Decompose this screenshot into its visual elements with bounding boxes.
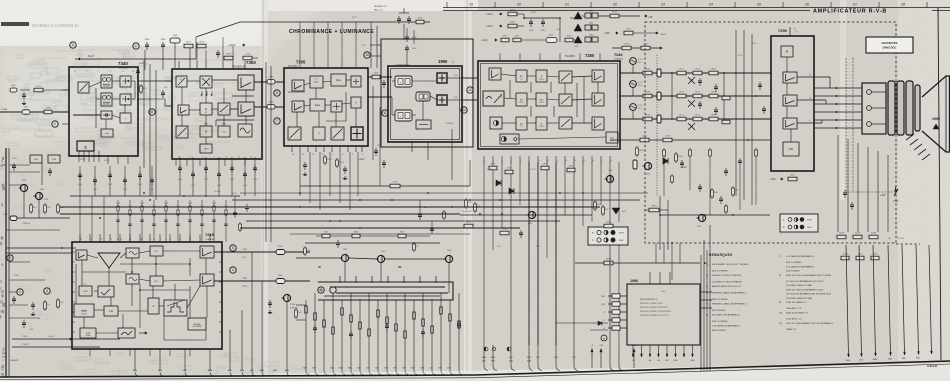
svg-text:1207: 1207 (491, 164, 497, 166)
module 1996 right pins (700, 291, 712, 293)
svg-text:B5B: B5B (339, 368, 343, 370)
dashed RVB amplifier boundary (645, 22, 896, 243)
svg-text:2207: 2207 (543, 164, 549, 166)
legend connector box b (right) (780, 214, 818, 232)
svg-text:3171: 3171 (679, 69, 685, 71)
capacitor 1203 (217, 50, 219, 53)
svg-text:Y: Y (318, 132, 320, 136)
IC 7250 matrix M 2 (536, 93, 547, 106)
vertical wires left of CTI (372, 86, 374, 160)
connector 1109 (170, 38, 180, 43)
svg-text:22k: 22k (30, 329, 33, 331)
chassis symbol 2789 (894, 186, 898, 196)
IC 7290 pin stubs right (797, 76, 814, 78)
svg-text:3171: 3171 (679, 92, 685, 94)
svg-text:820R 2k2 SUR LES APPAREILS AV: 820R 2k2 SUR LES APPAREILS AV POUDRE (786, 274, 832, 277)
svg-text:3607: 3607 (324, 232, 330, 234)
resistor 3053 (44, 203, 46, 214)
label +18 arrow (645, 15, 647, 17)
resistor 3104 (324, 155, 326, 165)
diode 6201b on row (598, 321, 602, 326)
IC 7250 input amp (489, 68, 501, 80)
svg-text:4277: 4277 (503, 36, 509, 38)
IC 7305 diag b (331, 127, 344, 140)
svg-text:7290: 7290 (778, 28, 788, 33)
svg-text:4): 4) (706, 293, 708, 295)
svg-text:1108: 1108 (269, 77, 274, 79)
resistor 3121 ladder (594, 200, 596, 211)
svg-text:1019: 1019 (843, 254, 849, 256)
IC 7215 output amp 2 (200, 274, 214, 286)
wire C490 bus (17, 217, 70, 219)
svg-text:4B33: 4B33 (651, 206, 657, 208)
ladder small caps (314, 325, 316, 328)
svg-text:1209: 1209 (507, 168, 513, 170)
svg-text:TDA4565-30: TDA4565-30 (232, 66, 246, 69)
IC 7290 FB1 box (783, 142, 799, 156)
svg-text:27: 27 (853, 3, 857, 7)
svg-text:3172: 3172 (695, 92, 701, 94)
IC 7215 big nabla (98, 253, 120, 268)
IC 7340 470n box (101, 129, 113, 137)
resistor row 1019 (841, 256, 849, 260)
svg-text:C5B B7D: C5B B7D (10, 360, 19, 362)
IC 7250 output amp G (592, 93, 604, 106)
resistor 3051 (30, 203, 32, 214)
IC 7290 internal wires (786, 57, 788, 72)
IC 7215 outputs right (214, 251, 310, 253)
svg-text:STA70B: STA70B (290, 307, 298, 310)
wire diode bus (570, 17, 574, 19)
ladder top transistor Q7602 (377, 255, 384, 262)
svg-text:TDA3565: TDA3565 (565, 55, 575, 58)
resistor 1208 on CVBB (44, 110, 52, 114)
svg-text:4.7k DANS LES APPAREILS: 4.7k DANS LES APPAREILS (786, 265, 815, 268)
cross link verticals on bus (671, 72, 673, 118)
svg-text:FILM NOTES: FILM NOTES (882, 41, 898, 45)
svg-text:+200: +200 (880, 194, 886, 197)
wire B signal bus (620, 118, 771, 120)
IC 7290 top supply stub (789, 27, 791, 36)
svg-text:6): 6) (706, 315, 708, 317)
wires ladder transistor drops (344, 262, 346, 282)
svg-text:W1R: W1R (619, 233, 624, 235)
svg-text:3171: 3171 (679, 115, 685, 117)
IC 7305 bottom pin stubs (291, 146, 293, 152)
ladder left feed wires (296, 257, 341, 259)
svg-text:OSZIL: OSZIL (81, 311, 88, 313)
test point E1 B (630, 104, 637, 111)
connector 220k a (276, 250, 285, 255)
ladder relay circles (318, 287, 324, 293)
wire CV90 +12v1 (12, 338, 120, 340)
IC 7215 A box (148, 298, 159, 314)
svg-text:+300v: +300v (660, 34, 667, 36)
svg-text:19: 19 (469, 3, 473, 7)
connector 1108 on wire (267, 80, 275, 85)
node 1 circled (17, 289, 23, 295)
svg-text:7014: 7014 (643, 44, 649, 46)
IC 7215 B-Y box 1 (150, 246, 163, 256)
ghost bleed lower-left strip (6, 168, 310, 375)
capacitor 3107 (344, 166, 346, 169)
capacitor C1903 (146, 42, 148, 45)
transistor Q7002 (35, 192, 42, 199)
svg-text:11): 11) (779, 323, 782, 325)
IC 7290 amp G (783, 95, 797, 106)
transistor Q7281 (528, 211, 535, 218)
horizontal mid bus bundle (240, 192, 648, 194)
CTI output bold box 1 (437, 73, 447, 83)
svg-text:MODULE CONFECTION: MODULE CONFECTION (640, 303, 663, 305)
IC 7350 big amp 1 (238, 75, 254, 90)
resistor row on dashed border (837, 235, 846, 239)
capacitor 2421 (681, 160, 683, 163)
IC 7250 matrix B-T 1 (516, 70, 527, 82)
svg-text:1104: 1104 (11, 85, 16, 87)
svg-text:2): 2) (706, 286, 708, 288)
IC 7250 switch 2 (559, 94, 572, 106)
svg-text:SCHEMA 2-2 (MODULE): SCHEMA 2-2 (MODULE) (32, 23, 79, 28)
IC 7215 D-T box 1 (126, 248, 139, 258)
IC 7350 switch box (218, 103, 230, 115)
IC 7305 sum 1 (351, 76, 361, 87)
svg-text:1B 2B: 1B 2B (104, 160, 110, 162)
IC 7350 OSNT box (200, 144, 212, 153)
svg-text:3172: 3172 (695, 115, 701, 117)
svg-text:PRESENT DANS LES APPAREILS: PRESENT DANS LES APPAREILS (712, 292, 747, 295)
capacitor 4042 on CTI top (406, 45, 408, 48)
resistor 3268 on G bus (643, 94, 652, 98)
svg-text:CHROMINANCE + LUMINANCE: CHROMINANCE + LUMINANCE (289, 29, 374, 35)
node 10 circled (364, 52, 370, 58)
junction dots sprinkle (143, 192, 145, 194)
svg-text:26: 26 (805, 3, 809, 7)
svg-text:1BB2: 1BB2 (872, 359, 878, 361)
svg-text:MODULE CONFECTION STEREO: MODULE CONFECTION STEREO (640, 311, 672, 313)
svg-text:3168: 3168 (645, 115, 651, 117)
IC 7350 snowflake arrows (201, 91, 203, 95)
svg-text:220R 10k DANS CTI: 220R 10k DANS CTI (786, 301, 807, 304)
IC 7340 delay capsule (101, 111, 112, 119)
svg-text:8: 8 (276, 91, 278, 95)
svg-text:B7B: B7B (438, 368, 442, 370)
IC 7350 RTE FF box (218, 126, 230, 137)
node 8 circled between blocks (149, 109, 155, 115)
dotted divider x657 (656, 55, 658, 196)
resistor 9101 (184, 44, 193, 48)
svg-text:4.7k DANS LES APPAREILS: 4.7k DANS LES APPAREILS (786, 255, 815, 258)
IC 7340 filter 1 (101, 75, 112, 88)
IC 7215 OSZ box (79, 286, 92, 296)
bottom drop hooks and labels center (483, 345, 485, 366)
svg-text:MTR: MTR (539, 79, 544, 81)
IC 7350 top pin risers (196, 42, 198, 61)
wire bus into 7215 left (6, 247, 76, 249)
resistor 3620 (295, 308, 297, 319)
resistor 9154 (565, 38, 573, 42)
wires between 7340 and 7350 (143, 60, 145, 168)
svg-text:9103: 9103 (199, 42, 205, 44)
ladder comb bus outer (318, 282, 453, 300)
resistor 4B33b (649, 208, 659, 212)
svg-text:12: 12 (468, 88, 472, 92)
wires left edge to blocks (9, 164, 30, 166)
svg-text:B-B B-B: B-B B-B (446, 123, 454, 125)
svg-text:6106: 6106 (612, 12, 618, 14)
svg-text:4015: 4015 (626, 29, 632, 31)
svg-text:F-R: F-R (109, 310, 113, 313)
transistor Q7402 (698, 214, 705, 221)
IC 7250 matrix M 3 (536, 117, 547, 130)
bias wire row y140 (610, 139, 770, 141)
wire R signal bus (620, 72, 771, 74)
wires between amp and legend (660, 214, 770, 216)
inductor 5015 (546, 38, 557, 43)
svg-text:+12v1: +12v1 (530, 12, 537, 14)
svg-text:PROCESSOR TV: PROCESSOR TV (640, 299, 658, 301)
svg-text:+12v1: +12v1 (48, 336, 55, 338)
capacitor 1902 right (844, 190, 846, 193)
transistor Q7471 (688, 77, 695, 84)
svg-text:4: 4 (232, 268, 234, 272)
svg-text:B3B: B3B (2, 353, 6, 355)
IC 7215 F-R box (104, 306, 118, 316)
more bottom drops left (134, 349, 136, 371)
CTI internal wires (412, 80, 437, 82)
svg-text:1109: 1109 (173, 35, 178, 37)
svg-text:1097: 1097 (665, 136, 671, 138)
svg-text:1307: 1307 (374, 73, 380, 75)
IC 7250 matrix M 1 (536, 70, 547, 82)
svg-text:2.2k: 2.2k (497, 246, 501, 248)
ladder comb bus inner lines (330, 286, 445, 288)
capacitor 4040 on CTI top (406, 34, 408, 37)
IC 7250 output amp B (592, 117, 604, 130)
svg-text:A2B: A2B (482, 356, 486, 359)
diode D3 bold (574, 36, 582, 43)
IC 7305 internal wires (304, 83, 310, 85)
stub wires left of row (79, 196, 81, 242)
diode 6203 (509, 188, 514, 194)
resistor 3404 (711, 188, 713, 199)
svg-text:820R 2k7 SUR LES APPAREILS 201: 820R 2k7 SUR LES APPAREILS 2014 (786, 288, 824, 291)
IC 7250 bottom pin stubs (483, 156, 485, 163)
svg-text:7): 7) (779, 256, 781, 258)
wire stub CTI top caps (406, 28, 408, 34)
top border right half (443, 10, 810, 12)
left column caps (13, 163, 15, 166)
svg-text:1208: 1208 (46, 108, 52, 110)
schematic left border (5, 148, 7, 377)
decoupling network below 7350 (179, 157, 181, 196)
svg-text:5): 5) (706, 304, 708, 306)
node 7 circled (274, 118, 280, 124)
svg-text:1610: 1610 (393, 182, 399, 184)
legend connector box a (center) (588, 227, 628, 245)
svg-text:3172: 3172 (695, 69, 701, 71)
svg-text:64µs: 64µs (315, 105, 321, 107)
circled marker left of module (601, 335, 607, 341)
note box FILM NOTES DANS DOC (866, 37, 913, 53)
svg-text:+300: +300 (604, 32, 610, 35)
resistor 9103 (197, 44, 206, 48)
svg-text:2789: 2789 (893, 200, 899, 203)
capacitor 2426 (725, 168, 727, 171)
svg-text:3168: 3168 (645, 92, 651, 94)
capacitor 2499 (542, 19, 544, 22)
svg-text:B4B: B4B (260, 370, 265, 372)
IC 7340 left pins (62, 89, 69, 91)
resistor 3272 on G bus (693, 94, 702, 98)
IC 7305 amp R (292, 80, 304, 91)
components row above 7215 (70, 195, 240, 197)
resistor 6106 (610, 14, 619, 18)
IC 7305 out box 1 (351, 97, 361, 108)
svg-text:POUDRE TUBE ELCOMA: POUDRE TUBE ELCOMA (786, 297, 812, 300)
svg-text:AMPLIFICATEUR R-V-B: AMPLIFICATEUR R-V-B (813, 9, 887, 15)
ladder header wires (305, 242, 440, 244)
svg-text:10: 10 (365, 53, 369, 57)
vertical wires through amplifier area (735, 30, 737, 196)
svg-text:1906: 1906 (161, 39, 167, 41)
IC 7250 contrast box (490, 117, 502, 129)
junction dots on mid buses (299, 192, 301, 194)
svg-text:9154: 9154 (567, 36, 573, 38)
svg-text:FOCUS: FOCUS (897, 238, 905, 240)
IC 7350 diag small (176, 126, 188, 138)
resistor 3371 on B bus (677, 117, 686, 121)
svg-text:14: 14 (462, 108, 466, 112)
module 1996 bottom pins (632, 345, 634, 357)
svg-text:RTE: RTE (204, 124, 209, 126)
svg-text:B-Y: B-Y (155, 281, 159, 283)
svg-text:C4B: C4B (420, 368, 425, 370)
capacitor 2061 (32, 302, 34, 305)
wire row y323 to module (556, 322, 608, 324)
svg-text:8: 8 (151, 110, 153, 114)
IC 7350 internal wiring (187, 80, 200, 82)
node 14 circled (461, 107, 467, 113)
capacitor 2522 (269, 300, 271, 303)
wire top-left feed (144, 50, 146, 70)
wire 7305 to CTI upper (368, 76, 392, 78)
IC 7290 amp R (783, 72, 797, 83)
capacitor 2105 (23, 92, 25, 95)
svg-text:9101: 9101 (186, 42, 192, 44)
half-dot markers bottom left of center (484, 347, 488, 351)
test point stubs (632, 64, 634, 73)
bottom page edge (0, 363, 950, 381)
svg-text:MULTI MONO: MULTI MONO (712, 310, 726, 312)
IC 7350 input diag (176, 76, 187, 87)
component row below 7250 (489, 166, 497, 170)
CRT socket bars (888, 81, 895, 135)
svg-text:1141: 1141 (36, 86, 41, 88)
svg-text:10K AVEC F1 MULTI FRANCE: 10K AVEC F1 MULTI FRANCE (712, 281, 742, 284)
svg-text:+12v2: +12v2 (486, 13, 493, 16)
resistor 3408 (725, 204, 727, 214)
svg-text:REMARQUES: REMARQUES (709, 253, 732, 257)
resistor 4046 (140, 84, 142, 94)
IC 7290 amp B (783, 118, 797, 129)
svg-text:B7B: B7B (509, 361, 513, 363)
CRT horn hatch (906, 134, 914, 140)
svg-text:B-Y: B-Y (155, 251, 159, 253)
connector 1051 on CVBB (22, 110, 30, 114)
resistor 1024 (604, 224, 613, 228)
IC 7250 filter wave (483, 91, 504, 106)
svg-text:100F: 100F (86, 335, 91, 337)
svg-text:+300: +300 (770, 178, 776, 181)
svg-text:OSNT: OSNT (203, 149, 209, 151)
resistor 3172 on R bus (693, 71, 702, 75)
svg-text:D/G: D/G (601, 304, 605, 306)
resistor 3063 (57, 298, 59, 309)
svg-text:B7B: B7B (491, 361, 495, 363)
module 1996 top pins (649, 272, 651, 284)
svg-text:5: 5 (232, 246, 234, 250)
page edge slanted lines bottom right (846, 245, 849, 357)
resistor 1106b (336, 158, 338, 168)
IC 7250 switch 3 (559, 117, 572, 129)
svg-text:A2B: A2B (491, 356, 495, 359)
left column extra wiring (9, 171, 40, 173)
ladder comb teeth (339, 276, 341, 282)
capacitor 4048 (162, 90, 164, 93)
left page edge smudges (0, 157, 5, 376)
CTI delay cell 2 (395, 110, 412, 121)
input network resistor 1141 (34, 88, 43, 92)
IC 7350 left pins (165, 80, 172, 82)
capacitor 2604 (337, 240, 339, 243)
svg-text:9K AVEC F1 MULTI EUROPE: 9K AVEC F1 MULTI EUROPE (712, 274, 742, 277)
junction dots G bus (671, 95, 673, 97)
svg-text:Φ: Φ (205, 108, 207, 111)
svg-text:1: 1 (19, 290, 21, 294)
svg-text:B4B: B4B (674, 360, 678, 362)
IC 7340 pin stubs bottom (78, 151, 80, 162)
svg-text:B-Y: B-Y (315, 82, 319, 84)
vertical wire pair from top bus (370, 22, 372, 68)
capacitor 1311 (375, 148, 377, 151)
svg-text:10 2B: 10 2B (80, 159, 86, 161)
transistor Q7205 (606, 175, 613, 182)
node 1 circled input (52, 121, 58, 127)
IC 7340 ident box (120, 113, 131, 123)
diode D3 load boxes (585, 37, 591, 42)
svg-text:RTE: RTE (222, 124, 227, 126)
wire CTI to 7250 2 (462, 99, 477, 101)
svg-text:1990: 1990 (438, 59, 448, 64)
wire mid right drops (659, 196, 661, 250)
diode 6303 (663, 158, 668, 164)
IC 7215 check box (98, 286, 114, 297)
resistor 1202 (224, 56, 233, 60)
IC 7350 RTE M box (200, 126, 212, 137)
resistor 3181 on R bus (709, 71, 718, 75)
svg-text:ø: ø (603, 337, 605, 341)
svg-text:+: + (355, 101, 357, 105)
svg-text:301B: 301B (871, 233, 877, 235)
capacitor 2209 (520, 230, 522, 233)
svg-text:7240: 7240 (614, 53, 622, 57)
page seam light bands (261, 0, 268, 381)
svg-text:3104: 3104 (327, 159, 333, 161)
svg-text:PRESENT DANS LES APPAREILS: PRESENT DANS LES APPAREILS (712, 303, 747, 306)
IC 7215 B-Y box 2 (150, 276, 163, 286)
svg-text:3018: 3018 (839, 233, 845, 235)
